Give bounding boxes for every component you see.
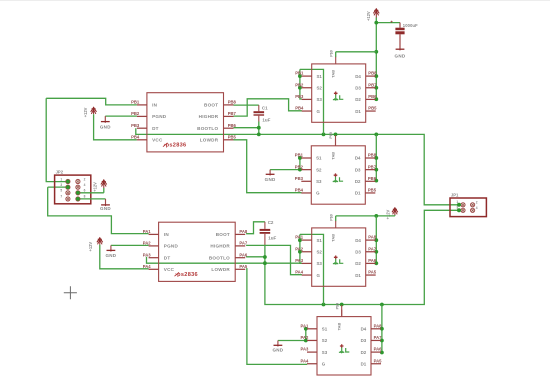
svg-text:PA5: PA5 [368, 270, 377, 275]
svg-text:TAB: TAB [330, 152, 335, 160]
svg-text:PB7: PB7 [368, 164, 377, 169]
svg-text:PB2: PB2 [295, 82, 304, 87]
svg-text:PB4: PB4 [295, 188, 304, 193]
svg-text:+12V: +12V [83, 107, 88, 117]
svg-text:6: 6 [84, 189, 86, 193]
svg-text:VCC: VCC [164, 267, 175, 272]
svg-text:S3: S3 [317, 97, 323, 102]
svg-text:1uF: 1uF [262, 117, 270, 122]
svg-text:PB1: PB1 [295, 71, 304, 76]
svg-text:PA3: PA3 [143, 252, 152, 257]
svg-text:S1: S1 [316, 156, 322, 161]
svg-text:D4: D4 [361, 327, 367, 332]
svg-text:PB6: PB6 [368, 176, 377, 181]
svg-text:PA1: PA1 [295, 235, 304, 240]
svg-text:P$9: P$9 [329, 50, 333, 57]
svg-text:PB3: PB3 [131, 123, 140, 128]
svg-text:P$9: P$9 [335, 303, 339, 310]
svg-text:P$9: P$9 [329, 214, 333, 221]
svg-text:1: 1 [60, 177, 62, 181]
svg-text:GND: GND [105, 253, 116, 258]
svg-text:PB3: PB3 [295, 176, 304, 181]
svg-text:PA7: PA7 [368, 246, 377, 251]
svg-text:PB7: PB7 [368, 82, 377, 87]
svg-text:+12V: +12V [385, 209, 390, 219]
svg-text:PA5: PA5 [374, 358, 383, 363]
svg-text:PB4: PB4 [131, 135, 140, 140]
svg-text:GND: GND [100, 206, 111, 211]
svg-text:G: G [317, 273, 321, 278]
svg-text:PB5: PB5 [368, 106, 377, 111]
svg-text:PA4: PA4 [295, 270, 304, 275]
svg-text:IN: IN [164, 232, 170, 237]
svg-text:PB7: PB7 [228, 111, 237, 116]
svg-text:1uF: 1uF [268, 236, 276, 241]
svg-text:TAB: TAB [337, 323, 342, 331]
svg-text:D1: D1 [355, 109, 361, 114]
svg-text:BOOT: BOOT [204, 103, 218, 108]
svg-text:PA8: PA8 [368, 235, 377, 240]
svg-text:D1: D1 [355, 273, 361, 278]
svg-text:PB2: PB2 [295, 164, 304, 169]
svg-text:BOOTLO: BOOTLO [197, 126, 218, 131]
svg-text:GND: GND [100, 124, 111, 129]
svg-text:PA2: PA2 [143, 241, 152, 246]
svg-text:1: 1 [456, 200, 458, 204]
svg-text:D4: D4 [355, 156, 361, 161]
svg-text:PB8: PB8 [368, 71, 377, 76]
svg-text:3: 3 [60, 183, 62, 187]
svg-text:S2: S2 [317, 85, 323, 90]
svg-text:C1: C1 [262, 105, 268, 110]
svg-text:D3: D3 [355, 167, 361, 172]
svg-text:PB4: PB4 [295, 106, 304, 111]
svg-text:+12V: +12V [92, 182, 97, 192]
svg-text:PB6: PB6 [368, 94, 377, 99]
svg-text:HIGHDR: HIGHDR [199, 114, 219, 119]
svg-text:GND: GND [395, 54, 406, 59]
svg-text:BOOT: BOOT [216, 232, 230, 237]
svg-text:G: G [316, 191, 320, 196]
svg-text:8: 8 [84, 195, 86, 199]
svg-text:VCC: VCC [152, 138, 163, 143]
svg-text:4: 4 [476, 206, 478, 210]
svg-text:PB2: PB2 [131, 111, 140, 116]
svg-text:S3: S3 [322, 350, 328, 355]
svg-text:5: 5 [60, 189, 62, 193]
svg-text:HIGHDR: HIGHDR [210, 244, 230, 249]
svg-text:D2: D2 [355, 179, 361, 184]
svg-text:S1: S1 [322, 327, 328, 332]
svg-text:IN: IN [152, 103, 158, 108]
svg-text:PA6: PA6 [239, 252, 248, 257]
svg-text:PA7: PA7 [239, 241, 248, 246]
svg-text:D2: D2 [355, 97, 361, 102]
svg-text:PA4: PA4 [301, 358, 310, 363]
svg-text:S1: S1 [317, 238, 323, 243]
svg-text:LOWDR: LOWDR [200, 138, 219, 143]
svg-text:PB8: PB8 [368, 153, 377, 158]
svg-text:2: 2 [84, 177, 86, 181]
svg-text:PB5: PB5 [368, 188, 377, 193]
svg-text:BOOTLO: BOOTLO [209, 255, 230, 260]
svg-text:7: 7 [60, 195, 62, 199]
svg-text:PB8: PB8 [228, 100, 237, 105]
svg-text:+12V: +12V [88, 242, 93, 252]
svg-text:PA8: PA8 [239, 229, 248, 234]
svg-text:G: G [322, 361, 326, 366]
svg-text:PA4: PA4 [143, 264, 152, 269]
svg-text:S1: S1 [317, 74, 323, 79]
svg-text:D3: D3 [355, 85, 361, 90]
svg-text:PA8: PA8 [374, 323, 383, 328]
svg-text:G: G [317, 109, 321, 114]
svg-text:S2: S2 [316, 167, 322, 172]
svg-text:TAB: TAB [331, 234, 336, 242]
svg-text:P$9: P$9 [329, 132, 333, 139]
svg-text:PB6: PB6 [228, 123, 237, 128]
svg-text:PA2: PA2 [295, 246, 304, 251]
svg-text:PB1: PB1 [295, 153, 304, 158]
svg-text:4: 4 [84, 183, 86, 187]
svg-text:PB1: PB1 [131, 100, 140, 105]
svg-text:PA3: PA3 [295, 258, 304, 263]
svg-text:TAB: TAB [331, 70, 336, 78]
svg-text:D1: D1 [361, 361, 367, 366]
svg-text:JP2: JP2 [56, 170, 64, 175]
svg-text:PA2: PA2 [301, 335, 310, 340]
svg-text:PA6: PA6 [368, 258, 377, 263]
svg-text:1000uF: 1000uF [403, 23, 418, 28]
svg-text:PA1: PA1 [143, 229, 152, 234]
svg-text:D2: D2 [355, 261, 361, 266]
svg-text:PA7: PA7 [374, 335, 383, 340]
svg-text:JP1: JP1 [451, 193, 459, 198]
svg-text:D4: D4 [355, 74, 361, 79]
svg-text:D1: D1 [355, 191, 361, 196]
svg-text:S3: S3 [316, 179, 322, 184]
svg-text:PGND: PGND [164, 244, 179, 249]
svg-text:DT: DT [152, 126, 159, 131]
svg-text:PA1: PA1 [301, 323, 310, 328]
svg-text:D4: D4 [355, 238, 361, 243]
svg-text:S2: S2 [317, 249, 323, 254]
svg-text:PA3: PA3 [301, 347, 310, 352]
svg-text:PGND: PGND [152, 114, 167, 119]
svg-text:3: 3 [456, 205, 458, 209]
svg-text:DT: DT [164, 255, 171, 260]
svg-text:D2: D2 [361, 350, 367, 355]
svg-text:GND: GND [272, 347, 283, 352]
svg-text:GND: GND [265, 177, 276, 182]
svg-text:D3: D3 [355, 249, 361, 254]
svg-text:PA5: PA5 [239, 264, 248, 269]
svg-text:PA6: PA6 [374, 347, 383, 352]
svg-text:S3: S3 [317, 261, 323, 266]
svg-text:D3: D3 [361, 338, 367, 343]
svg-text:PB5: PB5 [228, 135, 237, 140]
svg-text:2: 2 [476, 201, 478, 205]
svg-text:+12V: +12V [366, 11, 371, 21]
svg-text:S2: S2 [322, 338, 328, 343]
svg-text:PB3: PB3 [295, 94, 304, 99]
svg-text:C2: C2 [268, 220, 274, 225]
svg-text:LOWDR: LOWDR [211, 267, 230, 272]
svg-text:+: + [390, 20, 393, 25]
